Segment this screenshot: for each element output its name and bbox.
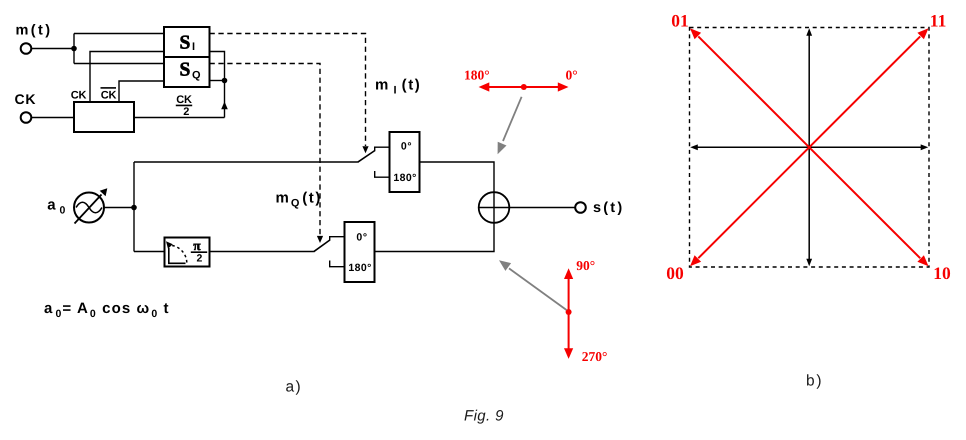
svg-text:Q: Q (192, 70, 201, 82)
switch 2 lever (314, 240, 330, 252)
junction node m(t) (71, 46, 77, 52)
wire m(t) branch vertical (73, 34, 75, 64)
terminal m(t) (21, 43, 32, 54)
constellation horizontal axis (690, 144, 928, 150)
wire CK divider to S_I clock (90, 52, 164, 103)
wire S_I clock from CK/2 node (210, 52, 225, 81)
svg-text:0°: 0° (401, 141, 412, 153)
wire divider to CK/2 riser (134, 117, 225, 119)
svg-text:90°: 90° (576, 258, 595, 273)
svg-text:11: 11 (930, 10, 947, 30)
wire summer to s(t) (509, 207, 575, 209)
red phase indicator 0/180 line (481, 86, 567, 88)
svg-text:π: π (193, 238, 201, 253)
constellation vector 11 (809, 28, 928, 147)
svg-text:180°: 180° (348, 262, 371, 274)
wire carrier to pi/2 (134, 251, 165, 253)
wire switch 1 output (420, 162, 495, 192)
wire dashed m_Q from S_Q to switch 2 (210, 64, 321, 236)
wire m(t) to S_I data input (74, 33, 164, 35)
svg-text:I: I (192, 41, 195, 53)
block S_Q (164, 57, 210, 87)
switch 2 lower contact (330, 261, 345, 267)
wire CKbar divider to S_Q clock (119, 81, 164, 102)
wire CK/2 vertical (224, 81, 226, 118)
svg-text:2: 2 (183, 106, 189, 118)
svg-text:b): b) (806, 373, 823, 390)
constellation vector 01 (690, 28, 809, 147)
svg-text:m(t): m(t) (16, 23, 53, 39)
svg-text:2: 2 (197, 253, 203, 265)
wire oscillator to junction (104, 207, 134, 209)
svg-text:180°: 180° (464, 68, 490, 83)
red node dot 0/180 (521, 84, 527, 90)
red arrowhead 90 up (564, 268, 573, 279)
svg-text:S: S (180, 60, 191, 81)
wire CK to divider (32, 117, 75, 119)
switch 1 upper contact (375, 147, 390, 151)
gray arrow to I-branch wire (498, 97, 522, 154)
switch 1 lower contact (375, 171, 390, 177)
block S_I (164, 27, 210, 57)
block phase selector 1 (390, 132, 420, 192)
svg-text:0°: 0° (356, 231, 367, 243)
switch 1 lever (358, 151, 375, 163)
block clock divider (74, 102, 134, 132)
svg-text:10: 10 (933, 263, 951, 283)
svg-text:0°: 0° (566, 68, 578, 83)
svg-text:CK: CK (101, 89, 117, 101)
wire switch 2 output (375, 223, 495, 252)
wire S_Q clock stub (210, 80, 225, 82)
red phase indicator 90/270 line (568, 271, 570, 357)
svg-text:S: S (180, 33, 191, 54)
svg-text:s(t): s(t) (593, 200, 624, 216)
svg-text:CK: CK (176, 94, 192, 106)
arrowhead m_Q down (317, 236, 323, 243)
wire m(t) to junction (32, 48, 75, 50)
junction node CK/2 (222, 78, 228, 84)
svg-text:CK: CK (71, 89, 87, 101)
constellation dashed square (690, 28, 930, 268)
arrowhead m_I down (362, 146, 368, 153)
constellation vector 00 (690, 147, 809, 266)
svg-text:a): a) (286, 378, 303, 395)
constellation vector 10 (809, 147, 928, 266)
wire carrier vertical (133, 162, 135, 252)
arrowhead CK/2 up (221, 102, 228, 110)
red node dot 90/270 (566, 309, 572, 315)
gray arrow to Q-branch wire (499, 260, 567, 310)
terminal s(t) (575, 202, 586, 213)
summer node (479, 192, 510, 223)
svg-text:270°: 270° (582, 349, 608, 364)
red arrowhead 0 right (558, 82, 569, 91)
label CK/2 fraction (176, 94, 192, 118)
wire m(t) to S_Q data input (74, 63, 164, 65)
red arrowhead 180 left (479, 82, 490, 91)
oscillator a0 (74, 188, 107, 223)
red arrowhead 270 down (564, 348, 573, 359)
switch 2 upper contact (330, 237, 345, 241)
wire pi/2 to switch 2 (210, 251, 314, 253)
terminal CK (21, 112, 32, 123)
wire carrier to switch 1 (134, 161, 358, 163)
constellation vertical axis (806, 28, 812, 266)
block pi/2 phase shifter (165, 238, 210, 267)
junction node carrier (131, 205, 137, 211)
block phase selector 2 (345, 222, 375, 282)
svg-text:Fig. 9: Fig. 9 (464, 408, 504, 425)
wire dashed m_I from S_I to switch 1 (210, 34, 366, 147)
label CKbar (101, 88, 117, 102)
svg-text:00: 00 (666, 263, 684, 283)
svg-text:180°: 180° (393, 172, 416, 184)
svg-text:CK: CK (15, 91, 37, 107)
svg-text:01: 01 (671, 11, 689, 31)
